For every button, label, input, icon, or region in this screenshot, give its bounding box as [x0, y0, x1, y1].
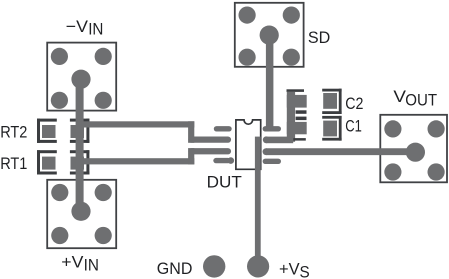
- wire into DUT pin 2 (left): [192, 136, 228, 142]
- svg-text:DUT: DUT: [207, 173, 242, 192]
- connector J3 (SD): [235, 3, 304, 67]
- wire SD to DUT pin 8 (vertical): [266, 35, 274, 129]
- connector J4 (VOUT): [380, 115, 447, 183]
- wire DUT pin 6 to VOUT: [266, 148, 415, 155]
- capacitor C1 right pad bracket: [322, 116, 341, 141]
- DUT body U1: [236, 120, 261, 169]
- DUT pin 4 stub (left): [216, 157, 234, 164]
- DUT pin 1 stub (left): [217, 126, 230, 131]
- label +VS: [279, 260, 310, 279]
- node -VIN center pad: [71, 70, 90, 89]
- power pad +VS: [247, 255, 269, 277]
- svg-text:RT2: RT2: [0, 122, 27, 141]
- svg-text:C2: C2: [345, 94, 363, 113]
- capacitor C1 left pad: [287, 122, 307, 134]
- capacitor C2 right pad bracket: [322, 89, 341, 114]
- capacitor C2 left pad top bar: [287, 89, 305, 92]
- DUT pin 8 stub (right): [265, 126, 278, 131]
- svg-text:S: S: [300, 263, 310, 279]
- DUT pin 5 stub (right): [265, 159, 278, 164]
- capacitor C2 left pad: [287, 95, 307, 108]
- capacitor C1 right pad: [323, 121, 337, 137]
- connector J2 (+VIN): [47, 180, 116, 248]
- svg-text:GND: GND: [157, 259, 193, 278]
- svg-text:IN: IN: [84, 256, 99, 275]
- label VOUT: [393, 87, 437, 109]
- svg-text:RT1: RT1: [0, 154, 27, 173]
- node +VIN center pad: [71, 202, 90, 221]
- wire vertical through C left pads: [287, 92, 295, 142]
- svg-text:−V: −V: [66, 17, 89, 36]
- capacitor C1 left pad upper bar: [296, 117, 307, 121]
- capacitor C2 right pad: [323, 93, 337, 109]
- resistor RT1 footprint brackets: [37, 150, 89, 174]
- resistor RT2 footprint brackets: [37, 119, 89, 143]
- wire RT2 to DUT pin 2 (upper bar with step): [80, 121, 194, 143]
- svg-text:SD: SD: [308, 28, 330, 47]
- label +VIN: [61, 252, 99, 274]
- resistor RT2 pads: [42, 125, 84, 138]
- svg-text:OUT: OUT: [405, 91, 437, 110]
- svg-text:C1: C1: [345, 117, 362, 136]
- svg-text:IN: IN: [88, 20, 103, 39]
- capacitor C1 left pad lower bar: [293, 138, 306, 141]
- ground pad GND: [203, 255, 225, 277]
- svg-text:+V: +V: [61, 252, 84, 271]
- DUT pin 7 dot (right): [263, 136, 270, 143]
- node VOUT center pad: [406, 143, 425, 162]
- wire DUT to +VS (vertical): [255, 137, 261, 267]
- svg-text:+V: +V: [279, 260, 300, 279]
- wire into DUT pin 3 (left): [192, 148, 228, 154]
- label -VIN: [66, 17, 104, 39]
- node SD center pad: [260, 25, 279, 44]
- resistor RT1 pads: [42, 157, 84, 170]
- connector J1 (-VIN): [47, 43, 116, 111]
- capacitor C2 left pad lower bar: [296, 110, 307, 114]
- wire DUT pin 7 to output slab: [266, 137, 293, 144]
- wire RT1 to DUT pin 3 (lower bar with step): [80, 148, 194, 164]
- wire -VIN to RT2 to RT1 to +VIN (vertical): [76, 79, 84, 211]
